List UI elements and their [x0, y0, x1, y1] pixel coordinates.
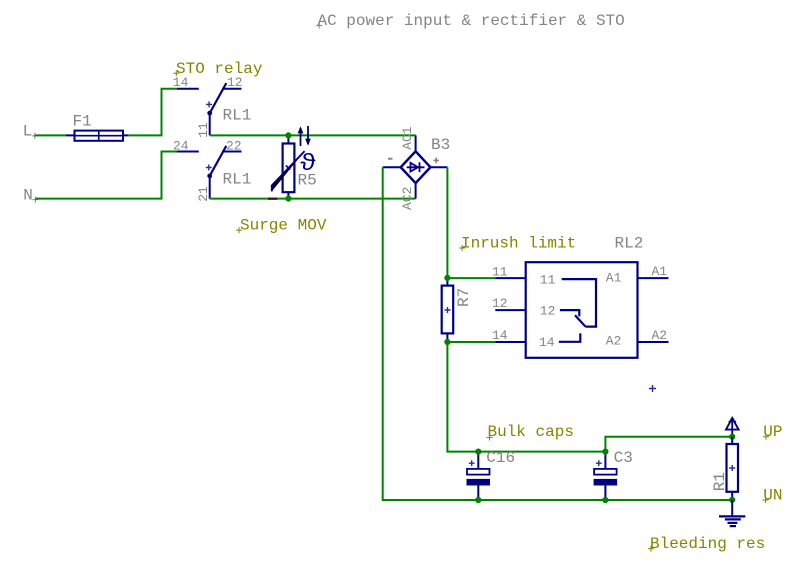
wire: fuse to jog up to contact pin 14 — [128, 89, 177, 136]
capacitor C3 — [594, 452, 618, 500]
bridge rectifier B3 — [383, 135, 448, 198]
pin 14 of RL2 — [495, 341, 525, 343]
svg-text:11: 11 — [540, 273, 556, 288]
resistor R7 — [442, 278, 454, 342]
svg-text:STO relay: STO relay — [176, 60, 263, 78]
svg-text:A1: A1 — [606, 271, 622, 286]
label: Bleeding res — [648, 535, 765, 553]
junction dot at R7 top — [444, 275, 450, 281]
label: Inrush limit — [459, 234, 576, 252]
relay RL2 box — [526, 262, 638, 358]
svg-text:21: 21 — [196, 186, 211, 202]
wire: L input to fuse — [35, 134, 66, 136]
svg-text:F1: F1 — [73, 113, 92, 131]
junction dot at R1 top — [729, 434, 735, 440]
svg-text:AC2: AC2 — [400, 187, 415, 210]
fuse F1 — [66, 131, 128, 141]
svg-text:14: 14 — [492, 328, 508, 343]
svg-text:11: 11 — [492, 264, 508, 279]
label: Bulk caps — [487, 423, 574, 441]
pin 12 of RL2 — [495, 309, 525, 311]
junction dot at C16 top — [475, 449, 481, 455]
junction dot at R5 bottom — [285, 196, 291, 202]
resistor R1 (bleeder) — [727, 437, 739, 500]
svg-text:RL2: RL2 — [615, 234, 644, 252]
svg-text:A2: A2 — [606, 334, 622, 349]
wire: R7 top to relay pin 11 — [447, 277, 495, 279]
wire: bridge plus down to R7 — [446, 167, 448, 278]
svg-text:UN: UN — [763, 486, 782, 504]
svg-text:N: N — [23, 187, 33, 205]
svg-text:12: 12 — [540, 304, 556, 319]
relay contact RL1 (top, pins 14-12-11) — [177, 83, 242, 135]
junction dot at C3 top — [602, 449, 608, 455]
label: Surge MOV — [236, 217, 327, 235]
svg-text:R1: R1 — [711, 472, 729, 491]
ground symbol — [719, 500, 745, 526]
pin A1 of RL2 — [638, 277, 669, 279]
svg-text:14: 14 — [539, 335, 555, 350]
svg-text:Surge MOV: Surge MOV — [240, 217, 327, 235]
svg-text:A1: A1 — [652, 264, 668, 279]
wire: R7 bottom down to bulk caps rail — [447, 342, 605, 452]
pin A2 of RL2 — [638, 341, 669, 343]
pin 11 of RL2 — [495, 277, 525, 279]
svg-text:R5: R5 — [298, 171, 317, 189]
svg-text:24: 24 — [173, 138, 189, 153]
svg-text:12: 12 — [492, 296, 508, 311]
wire: N input to jog up to contact pin 24 — [35, 152, 177, 199]
plus mark of B3 — [434, 158, 440, 164]
junction dot at R7 bottom — [444, 339, 450, 345]
junction dot at R5 top — [285, 132, 291, 138]
surge arrows (up/down) — [298, 126, 311, 146]
black tick on N wire near R5 — [268, 197, 277, 199]
node N label — [23, 187, 38, 205]
svg-text:L: L — [23, 122, 33, 140]
svg-text:RL1: RL1 — [223, 170, 252, 188]
wire: C3 top up and right to UP — [605, 437, 732, 452]
svg-text:AC1: AC1 — [400, 126, 415, 150]
title: AC power input & rectifier & STO — [316, 12, 625, 30]
wire: contact 21 output to bridge AC2 — [210, 198, 416, 200]
svg-text:Bleeding res: Bleeding res — [650, 535, 765, 553]
wire: R7 bottom to relay pin 14 — [447, 341, 495, 343]
svg-text:11: 11 — [196, 122, 211, 138]
label: STO relay — [173, 60, 263, 78]
svg-text:C3: C3 — [614, 449, 633, 467]
UP net flag — [726, 418, 739, 437]
svg-text:A2: A2 — [652, 328, 668, 343]
junction dot at R1 bottom — [729, 497, 735, 503]
label UP — [763, 423, 783, 441]
svg-text:AC power input & rectifier & S: AC power input & rectifier & STO — [318, 12, 625, 30]
svg-text:C16: C16 — [486, 449, 515, 467]
junction dot at C3 bottom — [602, 497, 608, 503]
label UN — [763, 486, 783, 504]
svg-text:RL1: RL1 — [223, 107, 252, 125]
varistor R5 — [272, 135, 305, 198]
node L label — [23, 122, 38, 140]
anchor plus of RL2 — [649, 385, 656, 392]
svg-text:Inrush limit: Inrush limit — [461, 234, 576, 252]
svg-text:22: 22 — [226, 138, 242, 153]
svg-text:B3: B3 — [431, 136, 450, 154]
wire: bridge minus down and UN rail — [383, 167, 733, 500]
svg-text:Bulk caps: Bulk caps — [488, 423, 574, 441]
junction dot at C16 bottom — [475, 497, 481, 503]
minus mark of B3 — [388, 158, 393, 160]
relay contact RL1 (bottom, pins 24-22-21) — [177, 146, 242, 199]
internal contact drawing of RL2 — [559, 279, 596, 342]
capacitor C16 — [467, 452, 491, 500]
svg-text:R7: R7 — [455, 288, 473, 307]
wire: contact 11 output to bridge AC1 — [210, 134, 416, 136]
